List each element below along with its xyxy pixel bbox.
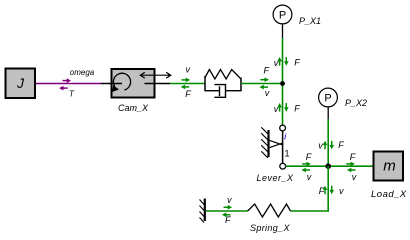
svg-text:F: F <box>294 104 300 114</box>
right bar <box>240 78 242 92</box>
svg-text:v: v <box>307 172 312 182</box>
lever Lever_X <box>261 125 289 169</box>
svg-text:P_X1: P_X1 <box>299 16 321 26</box>
svg-text:v: v <box>186 65 191 75</box>
cam port stub left <box>101 83 122 85</box>
svg-text:omega: omega <box>70 68 95 77</box>
wire wall to Spring_X <box>206 210 248 212</box>
svg-text:v: v <box>274 104 279 114</box>
damper rail right <box>226 90 242 92</box>
svg-text:F: F <box>294 58 300 68</box>
svg-text:F: F <box>350 152 356 162</box>
cam icon arrowhead <box>112 85 119 92</box>
svg-text:v: v <box>265 88 270 98</box>
cam icon arc <box>113 73 130 90</box>
arrow v left <box>347 168 356 173</box>
cam port stub right <box>145 83 171 85</box>
arrow v up <box>277 103 282 112</box>
svg-text:F: F <box>225 215 231 225</box>
node 1 junction <box>280 81 285 86</box>
arrow F down <box>284 103 289 112</box>
arrow omega <box>63 78 72 83</box>
svg-text:v: v <box>352 172 357 182</box>
left bar <box>204 76 206 91</box>
arrow v left <box>259 85 268 90</box>
arrow v up <box>323 141 328 150</box>
mass Load_X <box>374 152 404 181</box>
arrow T <box>59 86 68 91</box>
inertia J <box>6 69 36 99</box>
arrow F left <box>222 213 231 218</box>
P_X2 stub <box>327 107 329 119</box>
sensor P_X2 <box>319 88 338 119</box>
spring Spring_X <box>248 204 291 217</box>
svg-text:F: F <box>185 89 191 99</box>
svg-text:v: v <box>318 141 323 151</box>
svg-text:J: J <box>16 75 25 91</box>
wire Cam_X to SpringDamper <box>170 83 205 85</box>
lever pin bottom <box>280 163 286 169</box>
wire J to Cam_X (rotational, purple) <box>36 83 101 85</box>
arrow F down <box>284 57 289 66</box>
arrow v right <box>224 205 233 210</box>
arrow F right <box>260 77 269 82</box>
damper rod <box>205 90 220 92</box>
component Cam_X <box>101 69 171 98</box>
arrow F down <box>329 141 334 150</box>
svg-text:P: P <box>324 93 331 105</box>
arrow v left <box>301 168 310 173</box>
P_X1 stub <box>282 24 284 38</box>
arrow F up <box>323 186 328 195</box>
svg-text:P_X2: P_X2 <box>345 98 367 108</box>
fulcrum cross lines <box>270 140 284 145</box>
arrow v down <box>329 186 334 195</box>
svg-text:P: P <box>279 10 286 22</box>
wall hatches <box>261 127 268 134</box>
svg-text:v: v <box>339 186 344 196</box>
node 2 junction <box>325 163 331 169</box>
arrow F left <box>181 85 190 90</box>
svg-text:v: v <box>274 58 279 68</box>
arrow v up <box>277 57 282 66</box>
lever wall <box>267 130 269 157</box>
svg-text:F: F <box>338 140 344 150</box>
sensor P_X1 <box>273 5 292 38</box>
svg-text:m: m <box>383 157 396 174</box>
wire Lever bottom to node2 to Load <box>286 165 373 167</box>
damper piston plate <box>219 86 221 96</box>
spring zigzag <box>205 70 241 80</box>
svg-text:Cam_X: Cam_X <box>118 103 149 113</box>
svg-text:Lever_X: Lever_X <box>257 173 295 183</box>
fixed wall (bottom left) <box>200 199 205 223</box>
svg-text:F: F <box>319 186 325 196</box>
arrow F right <box>346 162 355 167</box>
svg-text:v: v <box>227 195 232 205</box>
cam double arrow <box>140 74 170 76</box>
svg-text:Load_X: Load_X <box>371 189 407 200</box>
svg-text:F: F <box>264 66 270 76</box>
wire spring to node2 (bottom horizontal) <box>291 210 330 212</box>
svg-text:F: F <box>306 152 312 162</box>
wire node2 down to Spring_X <box>327 166 329 211</box>
wire P_X1 to node1 to Lever top <box>282 38 284 125</box>
wire SpringDamper to node1 <box>241 83 283 85</box>
spring-damper element <box>205 70 241 98</box>
arrow v right <box>182 78 191 83</box>
svg-text:Spring_X: Spring_X <box>250 223 290 233</box>
damper cup <box>214 85 225 98</box>
wire P_X2 to node2 <box>327 119 329 166</box>
lever pin top <box>280 125 286 131</box>
svg-text:1: 1 <box>285 149 290 159</box>
arrow F right <box>302 162 311 167</box>
lever bar <box>282 128 284 166</box>
